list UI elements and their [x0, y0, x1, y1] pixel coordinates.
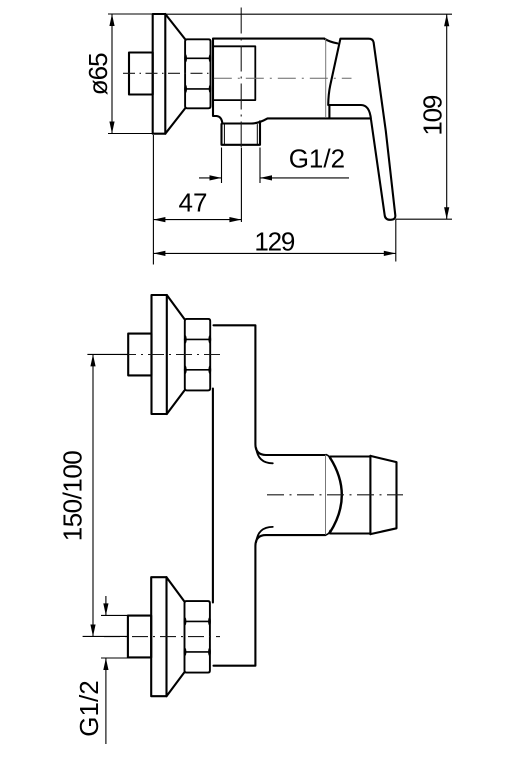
svg-text:47: 47	[179, 188, 208, 218]
svg-text:129: 129	[254, 226, 295, 256]
svg-text:109: 109	[418, 95, 448, 136]
svg-text:ø65: ø65	[83, 53, 113, 95]
svg-text:G1/2: G1/2	[74, 680, 104, 736]
svg-text:150/100: 150/100	[58, 451, 88, 542]
svg-text:G1/2: G1/2	[289, 144, 345, 174]
